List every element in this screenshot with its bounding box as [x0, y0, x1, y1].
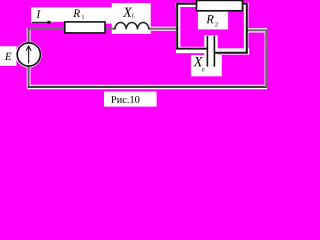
label background box (X_C): [191, 55, 222, 76]
halo around source circle: [17, 43, 40, 66]
caption text Рис.10: [111, 96, 139, 103]
label background box (X_L inductor): [112, 3, 151, 34]
label E: [5, 53, 12, 60]
resistor R1: [65, 22, 105, 33]
halo of bottom return wire: [27, 85, 267, 89]
parallel box left vertical: [176, 3, 178, 50]
label background box (E source): [0, 46, 17, 66]
label XC: [193, 57, 202, 66]
wire: top from source to resistor/coil: [28, 28, 116, 30]
label I: [36, 10, 40, 18]
label XL subscript: [132, 13, 135, 17]
halo of source top lead: [27, 28, 31, 44]
label XC subscript: [202, 68, 205, 71]
label R2 subscript: [215, 22, 217, 26]
label background pad left of inductor box: [105, 20, 113, 24]
wire: capacitor to right vertical: [214, 52, 247, 54]
label background box (R2): [198, 11, 228, 29]
halo of right edge wire: [265, 30, 268, 87]
wire: coil to parallel box: [149, 28, 178, 30]
label background strip (I and R1 labels): [31, 7, 112, 21]
wire: source bottom lead: [28, 65, 30, 88]
wire: bottom-left branch to capacitor: [176, 48, 207, 50]
capacitor XC right plate: [213, 36, 215, 67]
inductor XL coil: [115, 22, 149, 29]
wire: right edge down: [265, 30, 267, 88]
caption box: [104, 92, 157, 107]
parallel box top line: [176, 3, 247, 5]
halo of source bottom lead: [27, 65, 31, 88]
capacitor XC left plate: [206, 36, 208, 67]
label R1 subscript: [82, 15, 84, 19]
current arrow head: [48, 20, 53, 24]
label XL: [123, 8, 132, 17]
label background pad under current arrow: [31, 20, 53, 23]
source E arrow head: [26, 46, 31, 51]
label R2: [206, 15, 213, 23]
halo of bottom-left branch line: [176, 47, 208, 53]
current arrow line: [32, 21, 49, 23]
source E arrow shaft: [28, 46, 30, 63]
halo of parallel-box top line: [176, 3, 249, 7]
wire: source top lead: [28, 28, 30, 45]
label R1: [73, 10, 80, 17]
wire: output from parallel box: [247, 29, 268, 31]
wire: bottom return: [28, 86, 267, 88]
halo of parallel-box right vertical: [244, 3, 249, 54]
halo of output wire: [248, 28, 267, 32]
halo of bottom-right branch line: [214, 48, 250, 54]
parallel box right vertical: [246, 3, 248, 54]
halo of parallel-box left vertical: [176, 3, 180, 49]
halo of wire between coil and box: [151, 27, 177, 31]
resistor R2: [197, 0, 243, 10]
source E circle: [17, 43, 40, 66]
halo around capacitor plates: [204, 35, 217, 55]
